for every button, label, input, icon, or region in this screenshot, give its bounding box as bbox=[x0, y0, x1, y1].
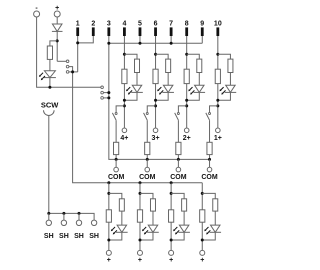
svg-text:1: 1 bbox=[76, 20, 80, 27]
svg-text:SH: SH bbox=[44, 233, 54, 240]
svg-text:SH: SH bbox=[74, 233, 84, 240]
svg-text:3+: 3+ bbox=[152, 135, 160, 142]
svg-text:6: 6 bbox=[154, 20, 158, 27]
svg-text:SCW: SCW bbox=[41, 100, 59, 109]
svg-text:COM: COM bbox=[170, 174, 187, 181]
svg-text:7: 7 bbox=[169, 20, 173, 27]
svg-text:SH: SH bbox=[59, 233, 69, 240]
svg-text:COM: COM bbox=[201, 174, 218, 181]
svg-text:3: 3 bbox=[107, 20, 111, 27]
svg-text:5: 5 bbox=[138, 20, 142, 27]
svg-text:9: 9 bbox=[200, 20, 204, 27]
svg-text:1+: 1+ bbox=[214, 135, 222, 142]
svg-text:+: + bbox=[138, 257, 142, 264]
svg-text:COM: COM bbox=[108, 174, 125, 181]
svg-text:2: 2 bbox=[91, 20, 95, 27]
svg-text:COM: COM bbox=[139, 174, 156, 181]
svg-text:10: 10 bbox=[214, 20, 222, 27]
svg-text:8: 8 bbox=[185, 20, 189, 27]
svg-text:4: 4 bbox=[122, 20, 126, 27]
svg-text:4+: 4+ bbox=[120, 135, 128, 142]
svg-text:+: + bbox=[200, 257, 204, 264]
svg-text:+: + bbox=[169, 257, 173, 264]
svg-text:2+: 2+ bbox=[183, 135, 191, 142]
svg-text:SH: SH bbox=[89, 233, 99, 240]
svg-text:+: + bbox=[107, 257, 111, 264]
